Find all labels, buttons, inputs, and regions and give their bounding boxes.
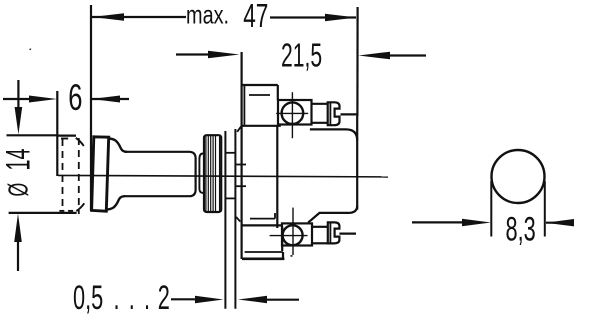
svg-text:14: 14 (0, 149, 37, 171)
svg-text:6: 6 (68, 76, 82, 118)
svg-text:47: 47 (243, 0, 268, 35)
svg-text:0,5: 0,5 (73, 279, 103, 314)
svg-text:2: 2 (158, 279, 170, 314)
svg-text:.: . (129, 279, 135, 314)
svg-text:8,3: 8,3 (506, 211, 536, 249)
svg-text:.: . (144, 279, 150, 314)
svg-text:.: . (114, 279, 120, 314)
svg-text:21,5: 21,5 (281, 37, 322, 74)
svg-text:Ø: Ø (2, 183, 33, 197)
svg-text:max.: max. (186, 0, 229, 29)
